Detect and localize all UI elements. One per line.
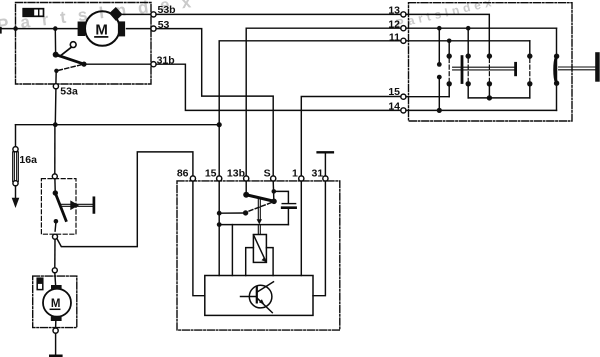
svg-text:M: M (95, 21, 108, 38)
washer switch upper terminal (52, 174, 57, 179)
wire: lower contact to terminal 53a (55, 71, 57, 84)
relay coil mechanical link (double line with arrow) (257, 198, 262, 235)
column B lower contact (447, 81, 452, 86)
pump motor upper terminal (52, 268, 57, 273)
switch shaft double line (559, 67, 596, 70)
column E lower contact (527, 81, 532, 86)
wire: supply rail down to fuse (15, 125, 17, 147)
junction at box border (13, 26, 18, 31)
wire: terminal 31b to switch terminal 14 (156, 64, 401, 110)
pump connector block (37, 278, 43, 289)
park bus wire (468, 97, 530, 99)
park switch actuator knob (60, 42, 76, 57)
wire: terminal 11 bus inside box (406, 40, 530, 42)
wiper motor unit enclosure (dash-dot box) (16, 3, 152, 85)
wire: terminal 1 down to output stage (300, 181, 302, 275)
junction 12-bus / column A (437, 26, 442, 31)
wire: terminal 86 to output stage (193, 181, 205, 296)
wire: to relay changeover lower contact (219, 212, 243, 214)
park switch pivot wire (54, 29, 56, 53)
relay coil K1 (253, 235, 266, 263)
washer switch push actuator (61, 198, 94, 213)
svg-text:S: S (264, 167, 271, 179)
wire: lower contact to lower terminal (54, 224, 57, 232)
wire: motor brush to terminal 53 (127, 28, 151, 30)
supply rail wire (y=124.7) (16, 124, 220, 126)
wire to ground (55, 333, 57, 355)
relay armature pivot (243, 192, 249, 198)
park switch arm (56, 55, 84, 65)
relay terminal 86 (190, 176, 195, 181)
svg-text:15: 15 (205, 167, 217, 179)
thermal breaker F1 (23, 9, 43, 17)
relay terminal 31 (323, 176, 328, 181)
actuator rod double line (453, 67, 517, 70)
wire: terminal 13b to relay armature pivot (245, 181, 247, 192)
junction 53a line / supply rail (53, 122, 58, 127)
relay terminal 1 (299, 176, 304, 181)
svg-text:1: 1 (292, 167, 298, 179)
supply terminal tick at left edge (0, 27, 2, 34)
junction 15 / changeover contact (217, 211, 222, 216)
column C lower contact (466, 81, 471, 86)
svg-text:13b: 13b (227, 167, 245, 179)
wire: flag to terminal 53b (122, 13, 151, 15)
wire: terminal 15 riser inside relay (218, 181, 220, 275)
coil mounting bracket (246, 248, 273, 276)
switch shaft handle bar (595, 52, 600, 81)
junction above park switch (53, 26, 58, 31)
svg-text:11: 11 (389, 31, 400, 43)
wiper switch enclosure (dash-dot box) (409, 3, 573, 121)
wire: washer switch to relay terminal 86 (57, 152, 193, 247)
washer pump motor M2 (43, 285, 71, 321)
column F upper contact (554, 54, 559, 59)
actuator right T-bar (514, 63, 517, 75)
battery feed arrow (12, 198, 20, 208)
wire: terminal 53b to switch terminal 13 (156, 13, 401, 15)
svg-text:16a: 16a (19, 154, 37, 166)
column B upper contact (447, 53, 452, 58)
wire into pump motor box (54, 273, 57, 285)
junction 11-bus / column B (447, 39, 452, 44)
wire: terminal 53 to relay terminal S (156, 29, 273, 176)
relay lower contact (243, 210, 248, 215)
park switch lower contact (54, 69, 58, 73)
wire: pump motor to lower terminal (55, 321, 57, 328)
wire: terminal 12 bus inside box (406, 27, 557, 29)
switch terminal 12 (401, 26, 406, 31)
main column F lead (556, 28, 558, 110)
column A lower contact (437, 75, 442, 80)
relay terminal 15 (217, 176, 222, 181)
junction S / capacitor (272, 189, 277, 194)
wiper motor M1 (78, 7, 126, 46)
svg-text:13: 13 (388, 5, 400, 17)
svg-text:14: 14 (388, 101, 400, 113)
wire: terminal 15 into box (406, 96, 449, 98)
terminal 53 (151, 26, 156, 31)
switch terminal 13 (401, 12, 406, 17)
column D upper contact (487, 53, 492, 58)
column A upper contact (437, 62, 442, 67)
actuator left T-bar (461, 57, 464, 83)
switch terminal 14 (401, 108, 406, 113)
relay arm end contact (271, 199, 277, 205)
svg-text:86: 86 (177, 167, 189, 179)
ground T-bar above terminal 31 (318, 152, 333, 176)
column F bridge (closed, thick) (555, 57, 557, 82)
terminal 31b (151, 62, 156, 67)
branch down to output stage (231, 225, 233, 276)
wire: supply to wiper motor (53 feed) (0, 28, 78, 30)
wire: into switch (54, 179, 56, 191)
column B lower lead to terminal 15 (448, 84, 450, 97)
column C upper lead (467, 28, 469, 54)
ground bar (50, 354, 61, 357)
relay terminal S (271, 176, 276, 181)
switch terminal 11 (401, 38, 406, 43)
relay armature arm (246, 195, 274, 202)
wire: terminal 12 to relay terminal 13b (246, 28, 401, 176)
contact column A upper lead (438, 28, 440, 62)
switch terminal 15 (401, 94, 406, 99)
capacitor C1 (274, 191, 296, 224)
column E bridge (dashed) (529, 59, 531, 82)
washer pump enclosure (dash-dot box) (33, 276, 77, 328)
junction 15 / capacitor return (217, 222, 222, 227)
wire: terminal 31 down to output stage (313, 181, 325, 296)
column D bridge (dashed) (488, 59, 490, 82)
wire: terminal S down (272, 181, 275, 199)
washer pump switch enclosure (dashed box) (41, 179, 76, 235)
terminal 53b (151, 12, 156, 17)
pump lower terminal (53, 328, 58, 333)
wire: terminal 11 to relay terminal 15 (219, 41, 401, 176)
washer switch upper contact (53, 190, 58, 195)
column B upper lead (448, 41, 450, 54)
svg-text:53a: 53a (60, 86, 78, 98)
column E lower lead (529, 84, 531, 98)
junction bus / column D (487, 95, 492, 100)
wire: node down to washer switch (54, 127, 56, 174)
column C bridge (dashed) (467, 59, 469, 82)
column B bridge (dashed) (448, 59, 450, 82)
wire: terminal 53a down to distribution node (54, 89, 57, 125)
column D lower lead (488, 84, 490, 98)
column F lower contact (554, 81, 559, 86)
relay terminal 13b (244, 176, 249, 181)
washer switch arm (55, 193, 66, 221)
column C lower lead (467, 84, 469, 98)
wire: terminal 14 into box (406, 109, 557, 111)
park switch upper contact (53, 52, 59, 58)
washer switch lower terminal (53, 234, 58, 239)
wire: terminal 13 into box to contact D (406, 14, 489, 54)
wire: washer switch down to pump motor (54, 239, 56, 268)
fuse 16a (13, 147, 37, 186)
column D lower contact (487, 81, 492, 86)
column E upper contact (527, 53, 532, 58)
column E upper lead (529, 41, 531, 54)
svg-text:M: M (51, 298, 61, 310)
junction 14-wire / column A (437, 108, 442, 113)
relay alternate throw (dashed) (249, 203, 272, 212)
wire: fuse to battery arrow (15, 186, 17, 198)
transistor Q1 (241, 282, 274, 313)
svg-text:31: 31 (312, 167, 324, 179)
park switch alternate throw (dashed) (59, 65, 82, 71)
interval relay enclosure (dash-dot box) (177, 181, 340, 330)
terminal 53a (53, 84, 58, 89)
wire: common contact to terminal 31b (84, 63, 151, 65)
wire: relay terminal 1 to switch terminal 15? no - to terminal 15 wire (301, 97, 401, 176)
output stage module box (205, 276, 313, 316)
junction supply rail / relay 15 riser (217, 122, 222, 127)
washer switch lower contact (54, 219, 59, 224)
column A lower lead (438, 77, 440, 110)
capacitor return wire (219, 224, 288, 226)
column C upper contact (466, 53, 471, 58)
park switch common contact (81, 62, 86, 67)
junction 12-bus / column C (466, 26, 471, 31)
